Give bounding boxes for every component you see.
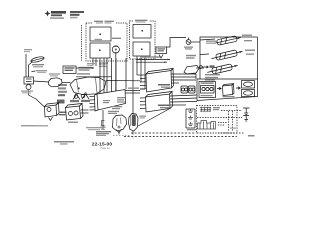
svg-text:Page 14: Page 14 [101, 147, 111, 150]
